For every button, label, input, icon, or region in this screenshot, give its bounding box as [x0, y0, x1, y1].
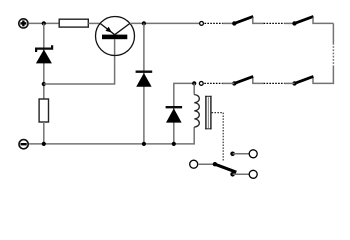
wire right edge bottom [313, 66, 333, 84]
transistor Q1 emitter line [100, 23, 115, 34]
node base junction [42, 82, 46, 86]
dashed lead row2 [204, 82, 222, 84]
relay coil K1 [194, 95, 199, 127]
dashed link row2 [264, 82, 285, 84]
terminal plus [19, 19, 28, 28]
dashed link row1 [264, 22, 285, 24]
resistor R1 horizontal [59, 19, 88, 27]
wire resistor to bottom rail [43, 122, 45, 144]
transistor Q1 collector line [115, 23, 130, 34]
NC terminal circle [249, 170, 257, 178]
wire NO contact [233, 153, 249, 155]
changeover lever [215, 164, 236, 172]
changeover pivot [213, 162, 217, 166]
transistor Q1 emitter arrow [106, 27, 112, 33]
wire common to pivot [198, 163, 215, 165]
wire contact 1a out [253, 18, 264, 24]
changeover switch common terminal [190, 160, 198, 168]
zener diode anode triangle [36, 50, 52, 64]
NO terminal circle [249, 150, 257, 158]
transistor Q1 circle [96, 17, 135, 56]
wire top rail left [29, 22, 59, 24]
diode D2 cathode bar [166, 106, 183, 108]
diode D2 anode triangle [166, 108, 182, 122]
wire coil top stub [193, 83, 195, 94]
dashed lead row1 [205, 22, 223, 24]
resistor R2 vertical [39, 99, 48, 122]
contact 2a lever [234, 76, 253, 83]
wire zener branch vertical [43, 23, 45, 99]
diode D1 anode triangle [136, 73, 151, 87]
NC contact dot [230, 172, 235, 177]
wire resistor to transistor [88, 22, 100, 24]
wire NC contact [233, 173, 249, 175]
relay core [205, 96, 211, 130]
wire contact 1b out [313, 18, 333, 24]
node bottom junction R2 [42, 142, 46, 146]
contact 2a pivot [232, 81, 236, 85]
contact 1b pivot [292, 21, 296, 25]
contact 2b pivot [292, 81, 296, 85]
diode D1 cathode bar [136, 70, 153, 72]
zener diode cathode bar [36, 45, 52, 52]
contact 1a pivot [232, 21, 236, 25]
terminal circle row2 [199, 82, 203, 86]
node D2 bottom [172, 142, 176, 146]
node diode D1 top [142, 21, 146, 25]
wire bottom rail [29, 127, 194, 144]
wire right edge top [332, 23, 334, 44]
transistor Q1 base bar [102, 35, 127, 40]
contact 1a lever [234, 16, 253, 23]
wire to contact 1b [284, 22, 294, 24]
wire diode D1 branch [143, 23, 145, 143]
contact 1b lever [295, 16, 314, 23]
node D1 bottom [142, 142, 146, 146]
node top-left junction [42, 21, 46, 25]
wire top rail right [130, 22, 199, 24]
mechanical linkage dotted [212, 113, 224, 161]
NO contact dot [230, 152, 235, 157]
wire contact 2b in [284, 82, 294, 84]
contact 2b lever [295, 76, 314, 83]
wire base from transistor [44, 39, 115, 84]
wire contact 2a out [253, 78, 264, 84]
terminal circle row1 [200, 22, 204, 26]
wire to contact 2a [223, 82, 235, 84]
node relay coil top [192, 81, 196, 85]
wire diode D2 branch [174, 83, 194, 143]
terminal minus [19, 140, 28, 149]
wire to contact 1a [223, 22, 235, 24]
dashed right edge [332, 46, 334, 65]
